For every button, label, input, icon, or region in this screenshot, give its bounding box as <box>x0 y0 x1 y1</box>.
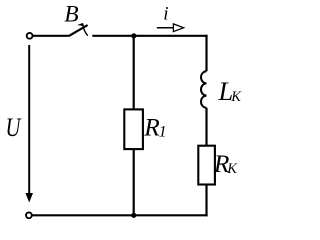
wire (top-left: terminal to switch hinge) <box>33 35 69 37</box>
wire (top-middle: switch to right corner) <box>92 35 207 37</box>
wire (right branch: RK to bottom corner) <box>205 185 207 217</box>
resistor RK <box>198 146 215 185</box>
svg-text:B: B <box>64 2 78 28</box>
label RK <box>213 150 238 178</box>
switch B motion arc with arrowhead <box>77 23 88 36</box>
label U <box>5 114 22 143</box>
svg-text:i: i <box>163 4 168 25</box>
label B <box>64 2 78 28</box>
svg-text:1: 1 <box>159 124 167 141</box>
terminal (bottom-left input) <box>26 212 32 218</box>
svg-text:U: U <box>5 114 22 143</box>
wire (middle branch upper segment) <box>133 36 135 110</box>
label i <box>163 4 168 25</box>
label LK <box>218 76 243 106</box>
svg-text:K: K <box>226 161 238 177</box>
voltage arrow U <box>25 45 33 203</box>
resistor R1 <box>124 109 143 149</box>
label R1 <box>143 113 166 141</box>
current arrow i <box>157 24 184 32</box>
node a (top junction dot) <box>131 33 136 38</box>
node b (bottom junction dot) <box>131 213 136 218</box>
terminal (top-left input) <box>27 33 33 39</box>
wire (right branch: corner to coil top) <box>205 35 207 71</box>
wire (middle branch lower segment) <box>133 149 135 215</box>
inductor LK coil <box>201 71 207 108</box>
switch B blade <box>69 25 88 36</box>
svg-text:K: K <box>230 89 242 105</box>
wire (bottom) <box>32 214 208 216</box>
wire (right branch: coil to RK) <box>205 108 207 146</box>
